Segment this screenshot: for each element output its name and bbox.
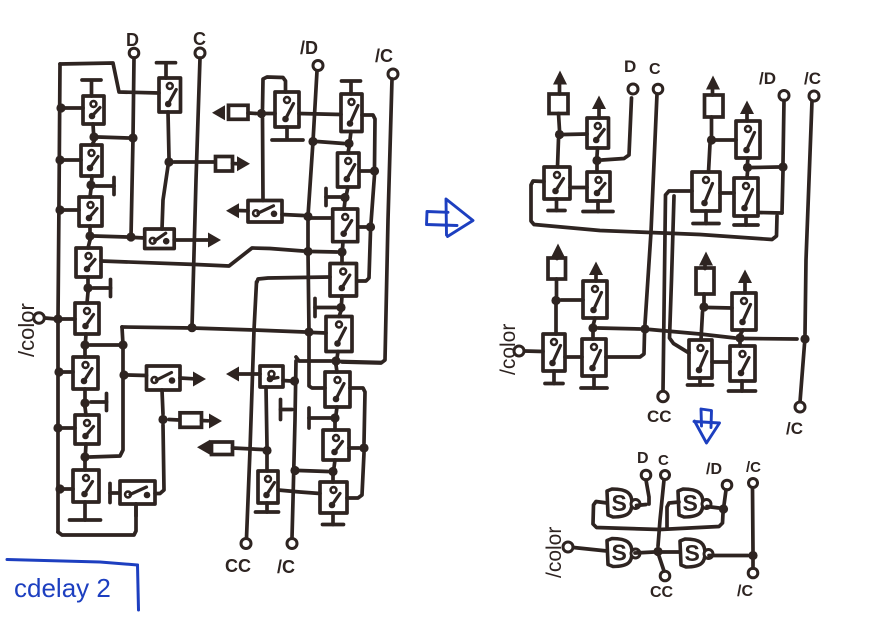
junction left bus #3 [55,205,64,214]
junction S3 output C-CC [653,547,662,556]
wire cellC node to W1 [561,298,583,302]
svg-text:D: D [126,30,139,50]
node CC terminal (bottom figure) [650,571,674,601]
wire col4#2 down to col-mid2 [266,387,267,471]
wire down to hswitch4 [155,425,164,494]
wire col5 stem b [344,187,348,209]
pulse box row1 [216,157,233,172]
pass-transistor switch column1 #7 [75,415,99,444]
ground T below column5 #8 [323,513,344,525]
svg-text:/color: /color [497,324,520,375]
wire V2-V3 [720,191,734,195]
junction /D mid1 [303,247,312,256]
gate T-cap above column2 [157,63,176,78]
wire cellA node to U1 [564,132,587,136]
node D terminal (bottom figure) [637,450,651,480]
ground T below V2 [693,211,719,224]
svg-text:/D: /D [759,69,776,88]
wire /C bottom stem [751,560,755,568]
svg-text:C: C [658,452,669,469]
pass switch X1 [732,293,756,330]
wire S3 out to S4 in [635,552,680,553]
wire /color to S3 [574,548,608,552]
wire+arrow row1 right [233,156,251,171]
node D terminal (right figure) [624,57,638,94]
pass-transistor switch column1 #1 [83,96,104,124]
wire to col5 stem g [299,471,328,472]
wire /D stem (bottom figure) [724,490,726,505]
pull-up arrow V1 [740,101,754,122]
wire col5#7 to junction [349,446,359,450]
wire col1-a to D line [98,137,129,138]
latch gate S1 [607,489,640,517]
wire col1 stem f [85,389,86,415]
wire CC stem (bottom figure) [659,556,664,571]
gate T-stub left of /C-bottom line [281,400,293,420]
wire pulse row3 [169,418,179,422]
wire node down to hswitch2 [261,118,265,201]
wire /color to bus [45,318,56,319]
junction above col-mid2 [262,446,271,455]
pull-up arrow cellB [706,76,720,96]
junction col5 e [331,356,340,365]
node C terminal (right figure) [649,61,663,94]
wire S2 out to /D node [707,507,719,509]
pulse arrow left hswitch2 [226,203,248,218]
blue outline arrow down (transform) [694,409,720,443]
wire cellB second bracket [670,196,690,353]
wire left bus vertical [58,64,60,532]
junction C (right figure) [640,324,649,333]
pass switch U3 [587,172,610,201]
junction below V1 [743,163,752,172]
node /C terminal (left figure) [375,46,398,79]
junction left bus #1 [56,103,65,112]
wire col4#2 arrow-left input [226,367,260,382]
wire col5 stem c [342,242,343,264]
node /D terminal (bottom figure) [706,461,732,490]
svg-text:/C: /C [786,419,803,438]
wire col4#2 to /C-bottom line [283,379,291,383]
wire node up-over to col4#1 [263,77,286,109]
ground T below X2 [729,381,756,391]
junction col5 f [330,413,339,422]
svg-text:/C: /C [804,69,821,88]
node /C bottom terminal (right figure) [786,402,805,438]
node C terminal (left figure) [193,29,206,58]
wire V1 node to /D line [752,165,779,169]
wire W3-W2 [565,355,582,359]
wire cellD node down to X3 [701,312,703,340]
junction col1 g [80,452,89,461]
node D terminal (left figure) [126,30,139,58]
junction /C-bottom at col4#2 [290,376,299,385]
pull-up arrow cellD [699,252,713,269]
bypass switch hswitch4 [120,481,155,504]
wire X1 node to /C line [745,337,797,341]
pull-up arrow U1 [592,96,606,119]
wire col5 stem a [348,132,351,154]
junction left bus #2 [55,155,64,164]
ground T below U3 [583,201,613,212]
svg-text:/D: /D [706,461,722,478]
gate T-cap above column1 #1 [82,80,101,96]
svg-text:CC: CC [650,584,674,601]
junction col5 b [340,193,349,202]
junction col1 b [86,180,95,189]
gate T-stub right of col1 b [96,178,114,195]
junction col5 g [328,467,337,476]
junction /C (right figure) [800,334,809,343]
latch gate S2 [678,489,711,517]
wire hswitch3 bottom stem [162,390,163,414]
gate T-stub left of col5 f [309,408,331,428]
node /C bottom terminal (bottom figure) [737,568,758,600]
wire C into W2 [606,334,645,357]
pass switch X2 [730,346,755,381]
pass switch U1 [587,118,609,148]
pull-up box cellD [696,268,714,294]
gate T-cap above column5 #1 [342,81,361,94]
wire mid vertical to hswitch3 [128,373,147,377]
wire+arrow row3 right [202,414,223,429]
svg-text:C: C [649,61,661,78]
wire col5#3 to junction [358,225,366,229]
wire bus stub #4 [61,317,75,321]
junction col1 e [80,340,89,349]
svg-text:S: S [612,490,627,516]
wire pulse row1 [174,160,214,164]
pulse box row4 [212,442,233,455]
pass-transistor switch col-mid2 [258,471,278,503]
junction S2 output //D [719,504,728,513]
junction /C-bottom lower [290,466,299,475]
pass-transistor switch column1 #2 [81,145,102,176]
wire bus stub #7 [63,487,73,491]
junction right of col5#2 [370,166,379,175]
junction cellC [551,296,560,305]
wire S1 out to D node [637,505,647,506]
wire cellA node down to U2 [558,139,559,167]
junction right of col5#3 [366,222,375,231]
wire /D to col5#3 left [308,216,333,220]
gate T-cap below col4#1 (inverted) [272,127,303,140]
wire /D to col5 stem a [317,142,344,144]
gate T-stub left of hswitch4 [110,484,119,503]
wire bus stub #6 [61,426,75,430]
pass-transistor switch column1 #3 [79,197,102,226]
wire col1 stem e [85,334,86,357]
junction /D upper [303,212,312,221]
wire pull-up stem cellA [559,114,560,131]
node /C bottom terminal (left figure) [277,539,297,578]
pass-transistor switch col4#1 [275,92,299,127]
wire col5#1 right loop [362,115,375,167]
latch gate S3 [607,539,640,567]
wire V3 right link [758,211,782,215]
wire pull-up stem cellB [710,117,714,136]
gate T-stub left of col5 d [315,299,337,317]
node /C top terminal (bottom figure) [746,459,761,488]
wire S2 input jog from feedback [667,502,679,527]
bypass switch hswitch1 [145,229,175,249]
svg-text:/color: /color [543,527,566,578]
svg-text:cdelay 2: cdelay 2 [14,573,111,603]
pass switch W3 [543,334,565,371]
pull-up box cellA [549,94,568,114]
junction col1 a [89,132,98,141]
junction D line upper [128,133,137,142]
pulse arrow left (row4) [197,440,210,455]
wire U1 stem [595,148,599,172]
junction cellA [555,130,564,139]
junction below U1 [592,156,601,165]
ground T below U2 [548,199,565,211]
wire col4#1 to col5#1 [299,114,341,115]
blue caption text cdelay 2 [14,573,111,603]
svg-text:S: S [612,540,627,566]
svg-text:/C: /C [375,46,393,66]
pass switch W1 [583,281,607,318]
pull-up arrow cellA [553,71,567,95]
wire /C vertical (right figure) [800,101,812,402]
wire U1 node to D terminal [602,98,632,160]
blue outline arrow right (transform) [427,199,474,237]
junction /D at long run [304,327,313,336]
ground T below column1 #8 [70,502,101,520]
node /D terminal (right figure) [759,69,789,101]
svg-text:CC: CC [225,556,251,576]
junction left bus #4 [53,314,62,323]
junction pulse row2 [257,109,266,118]
gate T-stub left of col5 b [326,189,341,206]
pass-transistor switch column1 #5 [75,303,99,334]
pass-transistor switch column5 #3 [333,209,358,242]
wire CC line vertical [247,282,257,538]
junction right of col5#7 [359,443,368,452]
wire to col5 stem c [313,250,337,254]
wire X3-X2 [712,360,730,364]
wire bus stub #3 [63,208,79,212]
wire col1 stem d [87,277,88,303]
wire cellA cross bracket [531,181,777,240]
junction col5 c [337,247,346,256]
wire W1 stem [593,318,595,339]
junction col1 d [83,283,92,292]
junction col1 c [85,231,94,240]
wire V1 stem [747,158,748,178]
svg-text:/C: /C [277,557,295,577]
junction cellB [707,135,716,144]
pass-transistor switch column2 [159,78,181,112]
wire col5#5 bottom to /C [341,362,381,363]
wire X1 stem [740,330,743,346]
junction S4 output /C [748,551,757,560]
wire cellB node to V1 [716,138,736,142]
junction mid vertical a [118,340,127,349]
wire col1-e to mid vertical [90,343,119,347]
ground T below X3 [688,378,713,385]
wire hswitch2 out to /D [282,215,303,216]
wire column2 stem down [162,112,169,229]
pull-up arrow cellC [551,244,565,259]
wire cellB bracket to CC [663,191,692,391]
wire cellD node to X1 [709,306,732,310]
wire hswitch4 bottom stem [134,504,138,516]
wire /D vertical (right figure) [782,101,784,214]
wire U2-U3 [570,186,587,190]
junction left bus #5 [54,367,63,376]
ground T below W3 [545,371,563,384]
wire C junction long link [650,330,735,339]
junction col1 f [80,398,89,407]
node CC terminal (left figure) [225,539,251,577]
wire col5#6 right hook [350,388,365,443]
pulse arrow left (row2) [212,105,225,120]
svg-text:CC: CC [647,407,672,426]
junction col5 a [344,139,353,148]
node C terminal (bottom figure) [658,452,670,480]
junction mid vertical b [119,370,128,379]
pass switch X3 [689,340,712,378]
wire bus stub #2 [63,158,81,162]
svg-text:S: S [685,540,700,566]
wire D vertical [131,58,134,237]
ground T below V3 [734,216,758,225]
wire hswitch3 out + arrow [180,372,206,387]
pass switch V2 [692,172,720,211]
wire W1 node to C junction [598,328,640,329]
wire top-left corner to column2 [60,63,159,93]
wire col5 stem f [335,407,337,430]
pass-transistor switch column1 #4 [76,248,101,277]
wire cellC node down to W3 [554,305,558,334]
wire col1 stem c [88,226,90,248]
bypass switch col4#2 [260,366,283,387]
wire /C vertical (bottom figure) [751,488,755,551]
pass switch W2 [582,339,606,376]
wire corner to col5#5 bottom [296,357,331,361]
pass-transistor switch column5 #4 [330,264,357,297]
ground T below W2 [581,376,607,388]
pass switch U2 [544,167,570,199]
wire col1 stem a [92,124,94,145]
junction left bus #6 [53,423,62,432]
svg-text:/C: /C [737,583,753,600]
wire long run to col5#5 left [122,327,326,333]
node /C terminal (right figure) [804,69,821,101]
pass-transistor switch column5 #1 [341,94,362,132]
junction below hswitch3 [158,415,167,424]
pass switch V1 [736,121,760,158]
bypass switch hswitch3 [147,366,181,390]
junction below X1 [735,333,744,342]
pulse box row3 [180,413,202,428]
svg-text:/color: /color [14,303,39,357]
junction below column2 [164,157,173,166]
wire pulse row4 to node [233,448,263,450]
junction C at long run [187,323,196,332]
wire col1#4 output run [101,248,303,266]
node CC terminal (right figure) [647,391,672,426]
pull-up arrow X1 [738,270,752,294]
wire CC-corner run to col5#4 left [257,277,330,282]
junction below W1 [588,323,597,332]
svg-text:D: D [624,57,636,76]
wire C vertical (bottom figure) [658,480,664,546]
wire pull-up stem cellD [702,294,706,303]
bypass switch hswitch2 [248,201,282,223]
junction D line lower [126,232,135,241]
node /color terminal (right figure) [497,324,524,375]
blue caption box cdelay 2 [7,560,139,611]
wire cellB node down to V2 [709,144,711,172]
wire pulse row2 to node [248,111,256,115]
pass-transistor switch column1 #8 [73,470,99,502]
pass-transistor switch column5 #6 [325,372,350,407]
latch gate S4 [680,539,713,567]
wire S4 out to /C node [709,554,748,558]
wire node to col4#1 left [266,112,275,116]
pass-transistor switch column5 #2 [338,153,360,187]
junction /D at col5 stem a [308,137,317,146]
node /color terminal (left figure) [14,303,44,357]
gate T-stub right of col1 d [93,280,111,297]
gate T-stub right of col1 f [91,394,107,411]
wire bottom-left return [58,504,136,535]
svg-text:/D: /D [300,38,318,58]
wire col5 stem g [333,460,335,482]
wire junction down to col5#3 right [371,175,375,223]
pull-up arrow W1 [589,262,603,282]
junction cellD [699,302,708,311]
junction col5 d [336,303,345,312]
wire col5#2 to junction [359,169,370,173]
ground T below col-mid2 [256,503,279,512]
wire col5 stem d [339,296,342,317]
svg-text:/C: /C [746,459,761,476]
pulse box row2 [229,105,249,119]
svg-text:C: C [193,29,206,49]
wire mid vertical (col1 link) [90,327,123,457]
wire bus stub #1 [64,106,83,110]
wire C vertical [192,58,200,327]
wire col1 stem g [85,444,86,470]
node /D terminal (left figure) [300,38,323,71]
wire /C vertical [342,79,392,363]
wire /D vertical [308,71,325,388]
wire C vertical (right figure) [645,94,657,324]
pull-up box cellC [548,258,566,279]
wire bus stub #5 [62,370,73,374]
wire col5 stem e [336,352,338,373]
wire pull-up stem cellC [555,279,559,296]
wire hswitch1 out + arrow [174,233,221,248]
wire junction down to col5#4 right [357,231,371,281]
wire /color to W3 [525,349,544,353]
wire col-mid2 right to col5#8 [278,490,320,494]
svg-text:S: S [683,490,698,516]
svg-text:D: D [637,450,649,467]
pass-transistor switch column1 #6 [73,357,98,389]
wire D stem (bottom figure) [646,480,649,504]
wire /C-bottom line vertical [292,361,296,538]
pull-up box cellB [705,95,724,117]
wire junction down to col5#8 right [347,453,364,498]
pass-transistor switch column5 #7 [323,430,349,460]
wire col1-c to D line to hswitch1 [94,236,145,238]
junction /D (right figure) [778,162,787,171]
